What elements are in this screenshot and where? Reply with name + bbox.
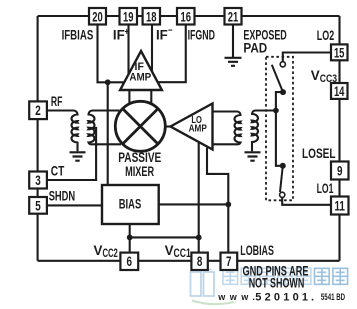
svg-text:AMP: AMP	[189, 122, 207, 134]
svg-text:21: 21	[228, 10, 239, 25]
svg-text:www.: www.	[217, 292, 259, 302]
svg-text:8: 8	[197, 254, 203, 269]
svg-text:IF: IF	[113, 27, 125, 42]
svg-text:AMP: AMP	[129, 72, 151, 84]
svg-text:+: +	[125, 27, 130, 38]
svg-text:LOSEL: LOSEL	[302, 146, 336, 161]
svg-text:SHDN: SHDN	[49, 188, 75, 203]
svg-text:.: .	[311, 291, 317, 303]
svg-text:MIXER: MIXER	[125, 164, 154, 179]
svg-text:LOBIAS: LOBIAS	[240, 243, 274, 258]
svg-text:RF: RF	[51, 94, 63, 109]
svg-text:15: 15	[334, 45, 345, 60]
svg-text:VCC2: VCC2	[94, 243, 118, 260]
svg-text:IFGND: IFGND	[188, 27, 216, 42]
svg-text:18: 18	[146, 10, 157, 25]
svg-text:20: 20	[92, 10, 103, 25]
svg-text:NOT SHOWN: NOT SHOWN	[249, 276, 305, 291]
svg-text:3: 3	[35, 173, 41, 188]
svg-text:16: 16	[181, 10, 192, 25]
svg-text:PASSIVE: PASSIVE	[118, 150, 161, 165]
svg-text:BIAS: BIAS	[119, 196, 142, 211]
svg-text:IF: IF	[156, 27, 168, 42]
svg-text:520101: 520101	[255, 291, 311, 303]
svg-text:VCC1: VCC1	[165, 243, 192, 260]
svg-text:14: 14	[334, 84, 345, 99]
svg-text:7: 7	[226, 254, 232, 269]
svg-text:VCC3: VCC3	[311, 68, 337, 85]
svg-text:IFBIAS: IFBIAS	[62, 27, 94, 42]
svg-text:PAD: PAD	[243, 41, 267, 56]
svg-text:CT: CT	[51, 163, 65, 178]
svg-text:2: 2	[35, 103, 41, 118]
svg-text:6: 6	[127, 254, 133, 269]
svg-text:−: −	[168, 26, 173, 37]
svg-text:11: 11	[334, 198, 345, 213]
svg-text:9: 9	[337, 163, 343, 178]
svg-text:LO2: LO2	[317, 28, 334, 43]
svg-text:5541 BD: 5541 BD	[321, 292, 346, 302]
svg-text:5: 5	[35, 198, 41, 213]
svg-text:19: 19	[123, 10, 134, 25]
svg-text:LO1: LO1	[317, 181, 334, 196]
